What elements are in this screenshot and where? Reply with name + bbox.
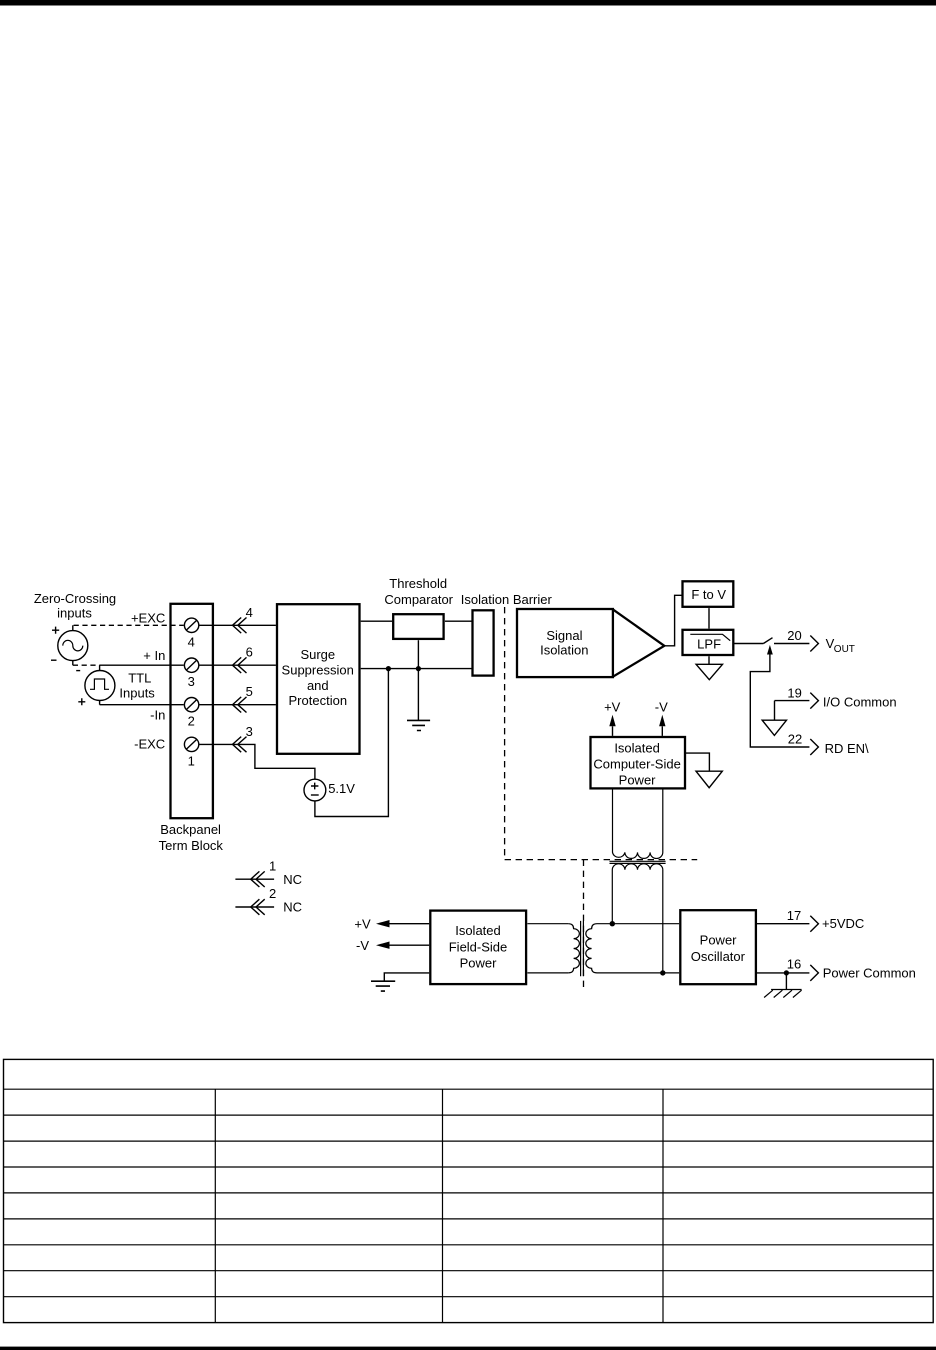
label NC 2 — [283, 900, 302, 915]
svg-text:-V: -V — [356, 938, 369, 953]
svg-text:Computer-Side: Computer-Side — [593, 756, 680, 771]
amplifier buffer triangle — [613, 609, 664, 676]
connector pin 2 NC wire — [235, 906, 274, 908]
svg-text:Field-Side: Field-Side — [449, 939, 508, 954]
svg-text:Power: Power — [619, 772, 657, 787]
wire +EXC dashed — [74, 624, 184, 626]
minus sign V2 — [76, 670, 80, 672]
svg-text:-V: -V — [655, 700, 668, 715]
terminal TB1-2 screw — [184, 698, 198, 712]
transformer T2 secondary winding — [586, 924, 597, 973]
+V output arrow field side — [354, 916, 429, 931]
plus sign V2 — [78, 698, 85, 705]
label TTL Inputs — [119, 670, 155, 700]
label VOUT — [826, 636, 855, 655]
ground GND2 triangle — [696, 664, 722, 679]
junction node B — [416, 666, 421, 671]
svg-text:+EXC: +EXC — [131, 610, 165, 625]
svg-text:2: 2 — [269, 886, 276, 901]
svg-text:Backpanel: Backpanel — [160, 822, 221, 837]
wire signal common — [361, 668, 472, 670]
svg-text:Isolated: Isolated — [455, 923, 501, 938]
svg-text:Isolation Barrier: Isolation Barrier — [461, 592, 553, 607]
svg-text:2: 2 — [188, 714, 195, 729]
label Isolation Barrier — [461, 592, 553, 607]
transformer T1 primary winding — [613, 790, 663, 859]
pin 17 arrow — [810, 916, 818, 932]
svg-text:Oscillator: Oscillator — [691, 949, 746, 964]
block surge suppression — [277, 604, 360, 754]
wire ground stub pin 16 — [785, 973, 787, 990]
pin number 5 — [246, 684, 253, 699]
pin number 17 — [787, 908, 801, 923]
label Threshold Comparator — [384, 576, 453, 607]
svg-text:+V: +V — [354, 916, 371, 931]
svg-text:Surge: Surge — [300, 647, 335, 662]
wire amp to F-to-V — [664, 595, 682, 646]
pin number 16 — [787, 957, 801, 972]
wire pin 19 — [775, 701, 810, 721]
svg-text:20: 20 — [787, 628, 801, 643]
svg-text:+5VDC: +5VDC — [822, 916, 864, 931]
terminal TB1-4 screw — [184, 618, 198, 632]
svg-text:Term Block: Term Block — [159, 838, 224, 853]
svg-text:6: 6 — [246, 645, 253, 660]
wire pin 16 — [757, 972, 809, 974]
source V2 TTL pulse — [85, 665, 115, 705]
wire LPF output — [734, 643, 764, 645]
block threshold comparator — [393, 614, 443, 639]
svg-text:NC: NC — [283, 900, 302, 915]
label + In — [143, 648, 165, 663]
label Power Common — [823, 965, 916, 980]
svg-text:and: and — [307, 678, 329, 693]
-V output arrow field side — [356, 938, 429, 953]
+V output arrow computer side — [604, 700, 621, 736]
wire computer-side power to GND4 — [686, 753, 709, 771]
wire T2 secondary top to oscillator — [597, 923, 679, 925]
svg-text:17: 17 — [787, 908, 801, 923]
switch S1 blade — [763, 638, 772, 644]
value label 5.1V — [328, 781, 355, 796]
svg-text:4: 4 — [246, 605, 253, 620]
svg-text:-EXC: -EXC — [134, 737, 165, 752]
label -EXC — [134, 737, 165, 752]
svg-text:Power Common: Power Common — [823, 965, 916, 980]
terminal TB1-1 screw — [184, 737, 198, 751]
barrier dashed line vertical upper — [504, 607, 506, 860]
svg-text:Isolation: Isolation — [540, 642, 588, 657]
switch S1 control arrow — [767, 645, 773, 655]
source V1 zero-crossing sine — [58, 625, 88, 665]
wire comparator to barrier — [445, 620, 472, 622]
pin number 1 — [269, 858, 276, 873]
wire 5.1V return to node A — [315, 669, 389, 817]
svg-text:+V: +V — [604, 700, 621, 715]
plus sign V1 — [52, 627, 59, 634]
connector chevron pin 5 — [233, 697, 247, 713]
svg-text:Power: Power — [700, 932, 738, 947]
ground GND4 triangle — [696, 771, 722, 788]
pin number 22 — [788, 732, 802, 747]
svg-text:+ In: + In — [143, 648, 165, 663]
connector chevron pin 1 — [251, 871, 265, 887]
svg-text:RD EN\: RD EN\ — [825, 741, 869, 756]
pin number 6 — [246, 645, 253, 660]
ground GND5 — [371, 981, 395, 991]
svg-text:LPF: LPF — [697, 636, 721, 651]
pin 16 arrow — [810, 965, 818, 981]
svg-text:Zero-Crossing: Zero-Crossing — [34, 591, 116, 606]
transformer T2 primary winding — [568, 924, 579, 973]
wire screw4 to surge — [199, 624, 276, 626]
wire field-side power to GND5 — [384, 973, 429, 981]
pin 20 arrow — [810, 636, 818, 652]
block signal isolation — [517, 609, 613, 677]
terminal block TB1 — [171, 604, 213, 818]
svg-text:Isolated: Isolated — [614, 740, 660, 755]
svg-text:F to V: F to V — [691, 587, 726, 602]
wire sine to TTL dashed — [73, 664, 100, 666]
label +5VDC — [822, 916, 864, 931]
wire switch to pin 20 — [774, 643, 809, 645]
wire field power to T2 primary bottom — [527, 972, 568, 974]
wire +In — [100, 664, 184, 666]
svg-text:Protection: Protection — [289, 693, 348, 708]
connector chevron pin 6 — [233, 657, 247, 673]
svg-text:I/O Common: I/O Common — [823, 694, 897, 709]
pin number 3 — [246, 724, 253, 739]
block LPF — [683, 630, 734, 655]
junction pin 16 to ground — [784, 970, 789, 975]
wire comparator ground stub — [417, 640, 419, 720]
wire F-to-V to LPF — [708, 608, 710, 629]
svg-text:Signal: Signal — [546, 628, 582, 643]
pin label 3 — [188, 674, 195, 689]
svg-text:3: 3 — [246, 724, 253, 739]
label -In — [150, 708, 165, 723]
label I/O Common — [823, 694, 897, 709]
pin 22 arrow — [810, 739, 818, 755]
wire screw1 to 5.1V source — [199, 744, 315, 779]
label Zero-Crossing inputs — [34, 591, 116, 620]
svg-text:OUT: OUT — [834, 644, 855, 655]
junction T1 to bottom wire — [660, 970, 665, 975]
svg-text:Comparator: Comparator — [384, 592, 453, 607]
pin label 2 — [188, 714, 195, 729]
svg-text:22: 22 — [788, 732, 802, 747]
source V3 5.1V — [304, 779, 326, 801]
wire RD EN control — [750, 654, 809, 747]
connector pin 1 NC wire — [235, 878, 274, 880]
svg-text:Inputs: Inputs — [119, 686, 155, 701]
wire screw2 to surge — [199, 704, 276, 706]
svg-text:inputs: inputs — [57, 605, 92, 620]
barrier dashed line vertical lower — [583, 860, 585, 991]
ground GND6 chassis — [764, 990, 802, 998]
svg-text:5: 5 — [246, 684, 253, 699]
svg-text:16: 16 — [787, 957, 801, 972]
label RD EN — [825, 741, 869, 756]
minus sign V1 — [51, 659, 57, 661]
svg-text:-In: -In — [150, 708, 165, 723]
connector chevron pin 3 — [233, 737, 247, 753]
transformer T2 core — [581, 921, 584, 976]
svg-text:1: 1 — [269, 858, 276, 873]
junction node A — [386, 666, 391, 671]
pin number 20 — [787, 628, 801, 643]
ground GND3 triangle — [762, 720, 786, 735]
connector chevron pin 4 — [233, 618, 247, 634]
label +EXC — [131, 610, 165, 625]
pin label 1 — [188, 753, 195, 768]
svg-text:NC: NC — [283, 872, 302, 887]
wire field power to T2 primary top — [527, 923, 568, 925]
block isolated computer-side power — [591, 737, 686, 788]
svg-text:1: 1 — [188, 753, 195, 768]
block F to V — [683, 581, 734, 607]
svg-text:19: 19 — [787, 685, 801, 700]
svg-text:Suppression: Suppression — [282, 662, 354, 677]
label NC 1 — [283, 872, 302, 887]
wire surge to comparator — [361, 620, 392, 622]
pin 19 arrow — [810, 693, 818, 709]
terminal TB1-3 screw — [184, 658, 198, 672]
wire screw3 to surge — [199, 664, 276, 666]
svg-text:TTL: TTL — [128, 670, 151, 685]
wire T2 secondary bottom to oscillator — [597, 972, 679, 974]
barrier dashed line horizontal — [505, 859, 698, 861]
svg-text:Threshold: Threshold — [389, 576, 447, 591]
svg-text:3: 3 — [188, 674, 195, 689]
transformer T1 core — [610, 861, 666, 863]
transformer T1 secondary winding — [612, 864, 663, 973]
ground GND2 stub — [708, 656, 710, 664]
block isolated field-side power — [430, 911, 526, 985]
wire -In — [100, 704, 184, 706]
label Backpanel Term Block — [159, 822, 224, 853]
ground GND1 — [407, 720, 430, 730]
wire pin 17 — [757, 923, 809, 925]
pin number 19 — [787, 685, 801, 700]
svg-text:Power: Power — [460, 956, 498, 971]
connector chevron pin 2 — [251, 899, 265, 915]
pin number 4 — [246, 605, 253, 620]
svg-text:4: 4 — [188, 634, 195, 649]
-V output arrow computer side — [655, 700, 668, 736]
block power oscillator — [680, 910, 756, 984]
pin label 4 — [188, 634, 195, 649]
svg-text:5.1V: 5.1V — [328, 781, 355, 796]
pin number 2 — [269, 886, 276, 901]
isolation barrier block — [473, 610, 494, 675]
junction T1 to top wire — [610, 921, 615, 926]
